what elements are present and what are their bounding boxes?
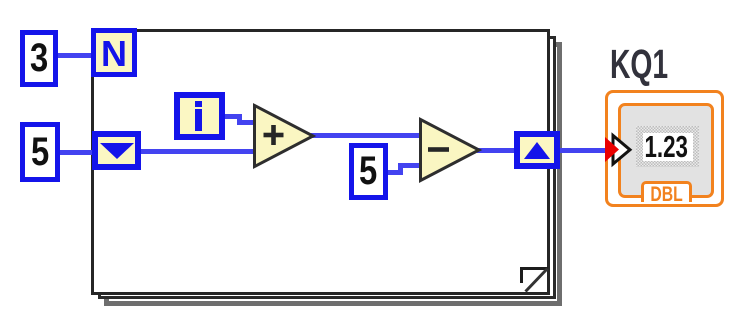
- iteration terminal i: [174, 92, 225, 140]
- fold corner (bottom-right resize dog-ear): [517, 263, 550, 295]
- numeric constant 3: [20, 30, 58, 87]
- wire: constant 5 to subtract input (stepped): [386, 170, 403, 175]
- indicator KQ1 outer orange frame: [605, 90, 724, 207]
- numeric constant 5 (near subtract): [349, 143, 388, 200]
- indicator input hollow arrow: [608, 130, 636, 170]
- indicator DBL type tab: [641, 181, 692, 202]
- subtract function node: [415, 114, 485, 186]
- numeric constant 5 (left): [20, 122, 60, 182]
- for-loop outer shadow frame C: [104, 42, 562, 306]
- loop count terminal N: [91, 28, 137, 77]
- indicator KQ1 inner orange frame: [618, 103, 714, 198]
- for-loop main frame: [91, 29, 550, 295]
- indicator numeric display (dithered border): [636, 126, 699, 167]
- wire: left shift register to add input: [139, 149, 257, 154]
- right shift register (up arrow): [514, 131, 560, 169]
- wire: add output to subtract input: [311, 133, 422, 138]
- add function node: [249, 100, 319, 172]
- wire: i terminal to add input (stepped): [221, 114, 242, 119]
- wire: constant 5 to left shift register: [58, 150, 94, 155]
- indicator numeric display value 1.23: [643, 133, 693, 161]
- for-loop shadow frame B: [98, 36, 556, 299]
- wire: subtract output to right shift register: [477, 148, 517, 153]
- indicator label KQ1: [610, 41, 730, 88]
- wire: right shift register to indicator KQ1: [557, 148, 607, 153]
- wire: constant 3 to N terminal: [56, 53, 94, 58]
- left shift register (down arrow): [92, 131, 141, 170]
- indicator input red coercion arrow: [602, 133, 624, 167]
